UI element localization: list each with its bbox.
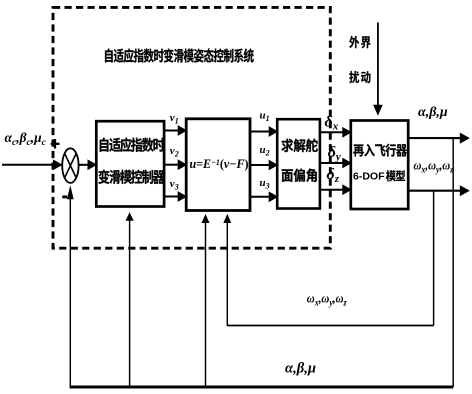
svg-text:α,β,μ: α,β,μ bbox=[418, 105, 448, 120]
svg-text:ωx,ωy,ωz: ωx,ωy,ωz bbox=[414, 158, 454, 175]
svg-text:u=E−1(ν−F): u=E−1(ν−F) bbox=[190, 156, 249, 170]
svg-text:ωx,ωy,ωz: ωx,ωy,ωz bbox=[307, 291, 347, 308]
svg-text:α,β,μ: α,β,μ bbox=[285, 361, 316, 377]
svg-text:6-DOF: 6-DOF bbox=[353, 171, 385, 183]
